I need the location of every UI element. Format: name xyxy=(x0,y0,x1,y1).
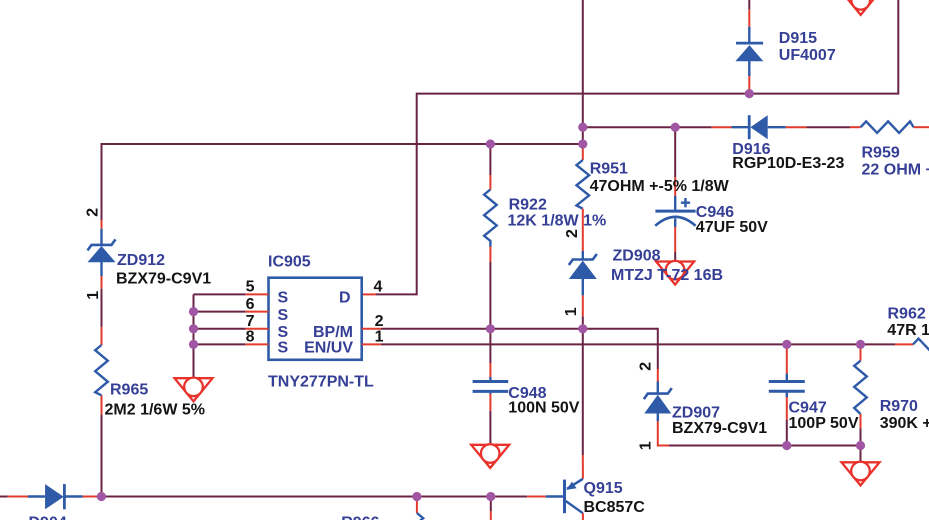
svg-text:MTZJ T-72 16B: MTZJ T-72 16B xyxy=(611,267,723,284)
node IC bus pin6 junction xyxy=(189,307,198,316)
svg-text:BP/M: BP/M xyxy=(313,324,353,341)
svg-text:2M2 1/6W 5%: 2M2 1/6W 5% xyxy=(105,401,205,418)
svg-text:Q915: Q915 xyxy=(584,480,623,497)
svg-text:390K +-5%: 390K +-5% xyxy=(880,415,929,432)
node IC bus pin8 junction xyxy=(189,340,198,349)
label C946 xyxy=(696,204,768,236)
svg-text:S: S xyxy=(278,324,289,341)
node D915 anode junction xyxy=(745,89,754,98)
svg-text:ZD907: ZD907 xyxy=(672,405,720,422)
svg-text:1: 1 xyxy=(85,291,102,300)
label IC905 pin numbers xyxy=(246,278,384,345)
svg-text:IC905: IC905 xyxy=(268,253,311,270)
node EN R970 junction xyxy=(856,340,865,349)
resistor R965 xyxy=(95,345,108,395)
svg-text:TNY277PN-TL: TNY277PN-TL xyxy=(268,373,374,390)
wire stub below bus at x=490.8 xyxy=(490,497,492,520)
label R962 xyxy=(887,305,929,339)
label R959 xyxy=(862,145,929,179)
svg-text:6: 6 xyxy=(246,296,255,313)
label R966 xyxy=(341,515,379,520)
svg-text:7: 7 xyxy=(246,313,255,330)
wire horizontal net y=144 xyxy=(102,143,583,145)
node C946 top junction xyxy=(671,123,680,132)
label R922 xyxy=(508,197,607,230)
resistor R962 xyxy=(913,339,929,351)
svg-text:BZX79-C9V1: BZX79-C9V1 xyxy=(672,420,767,437)
wire BP/M net y=328.8 xyxy=(362,328,658,330)
resistor R951 vertical xyxy=(577,144,590,251)
node bottom bus R966 junction xyxy=(412,492,421,501)
wire IC905 source bus to ground xyxy=(193,294,195,378)
wire D915 branch vertical xyxy=(748,0,750,94)
label D904 xyxy=(29,515,67,520)
node R922 top junction xyxy=(486,139,495,148)
zener diode ZD908 xyxy=(569,251,597,295)
svg-text:D: D xyxy=(339,290,351,307)
resistor R966 stub below bus xyxy=(417,497,423,520)
label IC905 internal pins xyxy=(278,290,354,357)
svg-text:5: 5 xyxy=(246,279,255,296)
svg-text:S: S xyxy=(278,307,289,324)
node gndbus R970 junction xyxy=(856,441,865,450)
svg-text:2: 2 xyxy=(638,362,655,371)
svg-text:100N 50V: 100N 50V xyxy=(508,400,579,417)
svg-text:D904: D904 xyxy=(29,515,67,520)
svg-text:ZD912: ZD912 xyxy=(117,252,165,269)
label ZD907 pin numbers xyxy=(638,362,655,451)
capacitor C947 xyxy=(769,382,805,392)
wire vertical into node at R951 top xyxy=(582,0,584,127)
label R965 xyxy=(105,381,205,418)
svg-text:47OHM +-5% 1/8W: 47OHM +-5% 1/8W xyxy=(590,178,730,195)
capacitor C948 xyxy=(473,382,509,392)
capacitor C946 polarized xyxy=(655,198,695,226)
wire ZD907 branch xyxy=(658,328,669,446)
node IC bus pin7 junction xyxy=(189,324,198,333)
svg-text:BZX79-C9V1: BZX79-C9V1 xyxy=(116,271,211,288)
IC905 box xyxy=(269,278,362,360)
wire C948 branch xyxy=(489,329,491,445)
zener diode ZD907 xyxy=(644,388,672,413)
wire Q915 emitter branch xyxy=(582,329,584,479)
svg-text:ZD908: ZD908 xyxy=(613,248,661,265)
svg-text:47UF 50V: 47UF 50V xyxy=(696,219,768,236)
wire C947 branch xyxy=(786,344,788,445)
wire left branch with ZD912 and R965 xyxy=(101,143,103,497)
svg-text:S: S xyxy=(278,290,289,307)
svg-text:8: 8 xyxy=(246,329,255,346)
svg-text:UF4007: UF4007 xyxy=(779,47,836,64)
ground below C948 xyxy=(471,444,509,468)
diode D915 xyxy=(735,43,763,61)
wire pin4 red stub xyxy=(362,293,376,295)
label ZD912 xyxy=(116,252,211,288)
node BP R922 junction xyxy=(486,324,495,333)
svg-text:2: 2 xyxy=(564,229,581,238)
label R951 xyxy=(590,161,730,195)
label ZD908 xyxy=(611,248,723,284)
svg-text:47R 1/8W: 47R 1/8W xyxy=(887,322,929,339)
transistor Q915 xyxy=(565,479,583,520)
svg-text:D915: D915 xyxy=(779,30,817,47)
svg-text:2: 2 xyxy=(84,208,101,217)
diode D916 xyxy=(749,115,768,139)
ground top right xyxy=(842,0,880,15)
svg-text:12K 1/8W 1%: 12K 1/8W 1% xyxy=(508,213,607,230)
label Q915 xyxy=(584,480,646,516)
wire connector R951 top xyxy=(582,127,584,144)
svg-text:RGP10D-E3-23: RGP10D-E3-23 xyxy=(732,155,844,172)
diode D904 xyxy=(45,484,64,509)
wire ZD908 to BP node xyxy=(582,295,584,328)
label D916 xyxy=(732,141,844,172)
label ZD907 xyxy=(672,405,767,438)
svg-text:R962: R962 xyxy=(888,305,926,322)
ground below IC905 source bus xyxy=(175,378,213,402)
label R970 xyxy=(880,398,929,432)
svg-text:R965: R965 xyxy=(110,381,148,398)
svg-text:2: 2 xyxy=(375,313,384,330)
node bottom bus stub junction xyxy=(486,492,495,501)
node R951 top junction xyxy=(578,123,587,132)
label C947 xyxy=(789,399,859,432)
node EN C947 junction xyxy=(782,340,791,349)
svg-text:1: 1 xyxy=(638,441,655,450)
svg-text:S: S xyxy=(278,340,289,357)
ground below C946 xyxy=(656,261,694,285)
svg-text:BC857C: BC857C xyxy=(584,499,646,516)
label ZD912 pin numbers xyxy=(84,208,101,300)
node BP ZD908 junction xyxy=(578,324,587,333)
wire EN/UV net y=344.4 xyxy=(362,343,913,345)
zener diode ZD912 xyxy=(88,239,116,262)
wire C946 branch xyxy=(674,127,676,261)
label ZD908 pin numbers xyxy=(563,229,581,316)
svg-text:R959: R959 xyxy=(862,145,900,162)
wire IC905 left pin stubs xyxy=(194,294,269,344)
svg-text:1: 1 xyxy=(563,307,580,316)
wire top net: pin4 of IC905 up and across to right edge xyxy=(376,0,898,294)
resistor R970 branch xyxy=(854,344,867,462)
ground below R970 xyxy=(842,462,880,486)
wire bottom bus y=496.5 xyxy=(0,496,563,498)
resistor R922 branch xyxy=(484,144,497,329)
svg-text:R922: R922 xyxy=(509,197,547,214)
label D915 xyxy=(779,30,836,64)
svg-text:R966: R966 xyxy=(341,515,379,520)
resistor R959 xyxy=(861,121,914,132)
node bottom bus D904 junction xyxy=(97,492,106,501)
svg-text:100P 50V: 100P 50V xyxy=(789,415,859,432)
label TNY277PN-TL xyxy=(268,373,374,390)
wire ground bus y=445.5 xyxy=(669,445,861,447)
node gndbus C947 junction xyxy=(782,441,791,450)
wire horizontal net y=127 with D916 and R959 xyxy=(583,126,929,128)
svg-text:R951: R951 xyxy=(590,161,628,178)
svg-text:R970: R970 xyxy=(880,398,918,415)
label C948 xyxy=(508,385,579,417)
svg-text:C947: C947 xyxy=(789,399,827,416)
svg-text:22 OHM +-5%: 22 OHM +-5% xyxy=(862,162,929,179)
svg-text:4: 4 xyxy=(374,278,383,295)
node R951 net144 junction xyxy=(578,139,587,148)
svg-text:EN/UV: EN/UV xyxy=(304,340,353,357)
label IC905 xyxy=(268,253,311,270)
svg-text:1: 1 xyxy=(375,329,384,346)
